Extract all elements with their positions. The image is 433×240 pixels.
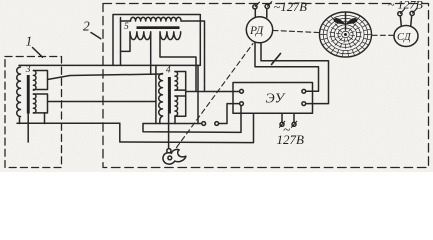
SD pin right xyxy=(410,11,414,15)
wire: T4 lower coil bottom lead xyxy=(174,116,176,124)
wire: T3 bracket bottom lead down xyxy=(44,113,46,124)
motor SD leads up xyxy=(400,16,401,26)
transformer T5 line winding xyxy=(131,17,182,21)
T3 secondary bracket xyxy=(33,71,47,90)
motor RD leads up xyxy=(254,9,256,18)
transformer T4 secondary lower coil xyxy=(175,96,178,116)
wire: EU mains lead left xyxy=(281,113,283,122)
wire: RD to EU lower right terminal xyxy=(261,43,329,104)
T5 enclosure box xyxy=(113,15,200,66)
dial pointer pivot line xyxy=(345,13,347,31)
wire: T4 secondary to amplifier input xyxy=(186,91,240,93)
cam inner circle xyxy=(168,156,172,160)
wire E: amplifier bottom to T4 bottom line xyxy=(143,105,241,133)
dial radial ticks xyxy=(320,17,370,57)
program dial outer rim xyxy=(320,12,372,57)
wire: T5 line winding right lead xyxy=(181,21,205,91)
contact K right xyxy=(215,122,219,126)
dashed enclosure box 2 (central unit) xyxy=(103,4,429,168)
wire: T3 primary bottom lead xyxy=(19,117,21,124)
wire WA: T3 top lead along to T4 box top xyxy=(19,64,198,66)
contact K left xyxy=(202,122,206,126)
EU terminal upper-right xyxy=(302,89,306,93)
dial pointer propeller blade left xyxy=(334,18,346,24)
dashed enclosure box 1 (subscriber unit) xyxy=(5,57,62,168)
cam body xyxy=(163,149,186,164)
transformer T4 secondary upper coil xyxy=(175,72,178,91)
dashed shaft RD to dial xyxy=(273,31,319,33)
EU terminal lower-left xyxy=(240,102,244,106)
dial ring 6 xyxy=(338,28,353,41)
transformer T5 left secondary coil xyxy=(130,32,151,40)
wire: EU mains lead right xyxy=(293,113,295,122)
dashed shaft dial to SD xyxy=(372,34,394,36)
T4 box right edge xyxy=(197,65,199,123)
transformer T4 core xyxy=(168,77,171,114)
wire: T4 primary bottom lead xyxy=(160,116,163,124)
EU terminal lower-right xyxy=(302,102,306,106)
transformer T4 primary winding xyxy=(159,74,163,116)
transformer T3 secondary lower coil xyxy=(33,94,36,113)
transformer T5 core xyxy=(137,26,180,29)
wire F: amplifier bottom to T3 bottom wire xyxy=(120,113,254,142)
dial ring 5 xyxy=(334,25,356,44)
label 1 leader line xyxy=(33,48,43,58)
EU mains pin right xyxy=(292,122,296,126)
transformer T3 primary winding xyxy=(17,67,21,117)
motor SD body xyxy=(394,26,418,47)
wire: T5 line winding left lead stub xyxy=(121,20,131,22)
wire: T5 left coil right lead down to WB xyxy=(150,33,152,74)
T4 cam shaft line xyxy=(168,114,170,150)
dial ring 7 xyxy=(342,31,350,38)
RD pin right xyxy=(265,4,269,8)
dial hub xyxy=(344,33,347,36)
dial ring 3 xyxy=(327,18,364,50)
transformer T5 right secondary coil xyxy=(160,32,181,40)
motor RD body xyxy=(246,17,272,43)
RD pin left xyxy=(253,5,257,9)
cam wire terminal xyxy=(167,149,171,153)
wire WC: T3 bracket tap to T4 box xyxy=(48,101,156,103)
amplifier unit EU box xyxy=(233,83,313,114)
wire: RD to EU upper right terminal xyxy=(255,43,319,92)
wire: T5 line winding left lead xyxy=(120,18,122,66)
dial ring 2 xyxy=(323,15,368,54)
T3 core stub xyxy=(27,114,29,143)
dial pointer propeller blade right xyxy=(346,18,358,24)
wire WD: T3 bottom lead wire xyxy=(17,122,120,124)
wire WB: T3 upper coil to T4 primary xyxy=(48,74,163,80)
transformer T3 core xyxy=(27,75,30,114)
EU terminal upper-left xyxy=(240,89,244,93)
SD pin left xyxy=(398,12,402,16)
adjustment slash xyxy=(272,54,281,65)
wire: T5 left coil left lead + step xyxy=(121,33,131,51)
T4 box left edge xyxy=(155,65,157,123)
dial ring 4 xyxy=(331,22,361,48)
transformer T3 secondary upper coil xyxy=(33,71,36,91)
T4 secondary bracket xyxy=(175,72,186,91)
label 2 leader line xyxy=(91,33,101,39)
wire: T5 right coil lead xyxy=(160,33,196,91)
dashed shaft cam to RD xyxy=(177,44,254,148)
wire G: T4 bottom line to contact xyxy=(143,123,202,125)
EU mains pin left xyxy=(280,122,284,126)
wire: contact to amplifier input xyxy=(219,104,240,124)
